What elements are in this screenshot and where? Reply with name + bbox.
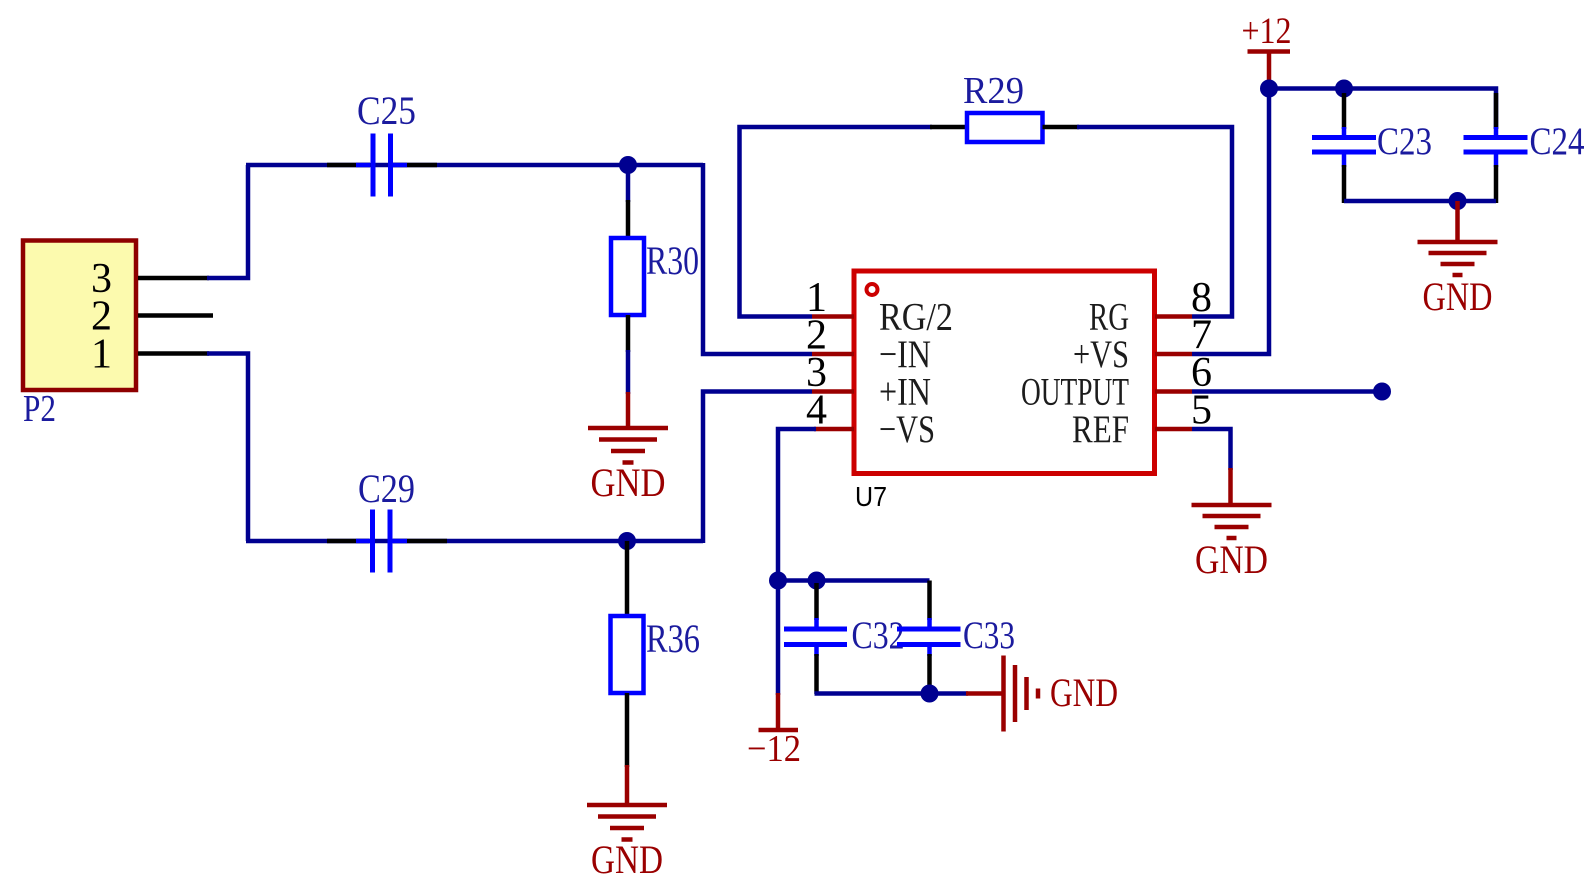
svg-text:R29: R29 — [963, 70, 1024, 112]
svg-text:C29: C29 — [358, 466, 415, 511]
wire black lead C23 bottom — [1342, 165, 1347, 203]
wire R29 to IC pin8 — [1077, 127, 1232, 317]
svg-text:GND: GND — [591, 460, 666, 505]
wire C29 horizontal net — [246, 539, 703, 544]
junction node C25/R30 — [619, 156, 637, 174]
svg-text:P2: P2 — [23, 388, 56, 430]
svg-text:GND: GND — [1050, 670, 1118, 715]
capacitor C32 — [784, 618, 847, 656]
wire C29 node to IC pin3 — [703, 392, 812, 544]
svg-text:C23: C23 — [1377, 120, 1432, 163]
wire +12 rail to C24 — [1269, 89, 1496, 130]
ground lead (right GND) — [966, 691, 1002, 696]
ground GND (R36) — [587, 805, 667, 840]
wire black lead C25 — [327, 163, 370, 168]
resistor R29 — [967, 113, 1043, 142]
wire IC pin1 loop left — [740, 127, 933, 317]
power -12 bar — [759, 728, 799, 733]
power +12 lead — [1267, 52, 1272, 85]
wire black lead R36 bottom — [625, 693, 630, 767]
capacitor C33 — [897, 618, 961, 656]
wire IC pin6 output — [1192, 389, 1382, 394]
wire +12 down to IC pin7 — [1192, 89, 1269, 355]
junction node C29/R36 — [618, 532, 636, 550]
power +12 bar — [1248, 49, 1291, 54]
wire C25 horizontal net — [246, 163, 703, 168]
junction node C23 top — [1335, 80, 1353, 98]
U7 pin 8 stub — [1155, 314, 1192, 319]
ground lead C23/C24 — [1455, 201, 1460, 242]
svg-text:C32: C32 — [852, 614, 905, 657]
P2 pin 2 stub wire — [138, 313, 213, 318]
svg-text:U7: U7 — [855, 481, 887, 512]
wire C32/C33 bottom rail — [815, 691, 969, 696]
wire C25 node to IC pin2 — [703, 163, 812, 354]
svg-text:REF: REF — [1072, 408, 1129, 451]
power -12 lead — [776, 693, 781, 730]
wire black lead C33 top — [927, 581, 932, 621]
U7 pin 1 stub — [812, 314, 854, 319]
ground GND sideways — [1004, 656, 1039, 732]
U7 pin 7 stub — [1155, 352, 1192, 357]
U7 pin 3 stub — [812, 389, 854, 394]
ground GND (C23/C24) — [1418, 242, 1498, 275]
wire black lead C24 top — [1494, 93, 1499, 129]
P2 pin 1 stub wire — [138, 351, 209, 356]
svg-text:C33: C33 — [963, 614, 1015, 657]
junction node +12 — [1260, 80, 1278, 98]
wire black lead C29 — [327, 539, 369, 544]
wire black lead R29 left — [930, 125, 967, 130]
capacitor C29 — [356, 510, 407, 573]
ground lead R30 — [626, 392, 631, 428]
capacitor C23 — [1312, 127, 1376, 167]
U7 pin 2 stub — [812, 352, 854, 357]
junction node C23/C24 gnd — [1449, 192, 1467, 210]
svg-text:5: 5 — [1191, 388, 1212, 434]
ground GND (pin5) — [1192, 505, 1272, 538]
svg-text:GND: GND — [1423, 274, 1493, 319]
U7 pin 5 stub — [1155, 427, 1192, 432]
wire black lead C33 bottom — [927, 654, 932, 694]
wire R30 to ground — [626, 350, 631, 394]
ground lead pin5 — [1228, 468, 1233, 505]
svg-text:R36: R36 — [646, 616, 700, 661]
ground GND (R30) — [588, 428, 668, 463]
wire C23/C24 bottom rail — [1344, 199, 1496, 204]
svg-text:GND: GND — [591, 837, 663, 882]
junction node C33 bottom — [921, 685, 939, 703]
svg-text:GND: GND — [1195, 537, 1268, 582]
capacitor C25 — [356, 134, 407, 197]
P2 pin 3 stub wire — [138, 276, 209, 281]
svg-text:+12: +12 — [1242, 11, 1292, 52]
svg-text:1: 1 — [91, 332, 112, 378]
svg-text:−VS: −VS — [879, 408, 935, 451]
capacitor C24 — [1464, 127, 1528, 167]
wire black lead C32 bottom — [814, 654, 819, 694]
junction node C32 top — [808, 572, 826, 590]
wire black lead C24 bottom — [1494, 165, 1499, 203]
wire black lead C23 top — [1342, 93, 1347, 129]
wire C25 node down to R30 — [626, 165, 631, 202]
svg-text:−12: −12 — [747, 728, 801, 770]
svg-text:C25: C25 — [357, 88, 416, 133]
node output endpoint — [1373, 383, 1391, 401]
wire black lead R30 bottom — [626, 315, 631, 352]
junction node -12 rail — [769, 572, 787, 590]
wire IC pin4 to -12 rail — [778, 429, 816, 582]
wire black lead R30 top — [626, 200, 631, 240]
svg-text:4: 4 — [806, 388, 827, 434]
resistor R30 — [611, 238, 644, 315]
wire IC pin5 to ground — [1192, 429, 1231, 470]
U7 pin1 marker circle — [867, 284, 878, 295]
wire C32/C33 top rail — [778, 578, 930, 583]
op-amp U7 body — [854, 271, 1155, 474]
U7 pin 6 stub — [1155, 389, 1192, 394]
ground lead R36 — [625, 765, 630, 805]
connector P2 body — [23, 241, 136, 391]
U7 pin 4 stub — [814, 427, 854, 432]
wire P2.3 to C25 — [207, 165, 248, 278]
wire black lead R36 top — [625, 541, 630, 618]
wire -12 vertical — [776, 581, 781, 696]
svg-text:C24: C24 — [1530, 120, 1585, 163]
svg-text:R30: R30 — [646, 238, 699, 283]
wire black lead C32 top — [814, 583, 819, 620]
wire black lead R29 right — [1043, 125, 1080, 130]
resistor R36 — [611, 616, 644, 693]
wire P2.1 to C29 — [207, 354, 248, 542]
